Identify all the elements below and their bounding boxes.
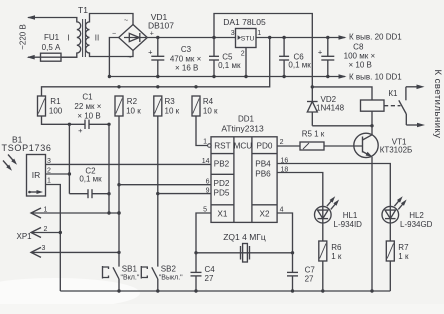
node DA1 out junctions [268, 36, 271, 39]
connector XP1 contact 1 [31, 208, 41, 218]
svg-text:× 10 В: × 10 В [349, 61, 372, 70]
svg-text:I: I [67, 34, 69, 43]
node C1 junctions [68, 123, 71, 126]
wire B1 pin2 stub [46, 173, 70, 175]
IR receiver B1 [27, 155, 46, 197]
relay contact K1.1 [405, 87, 407, 101]
transformer T1 secondary winding II [86, 14, 133, 57]
svg-text:9: 9 [206, 188, 210, 195]
node VD2 top junction [311, 85, 314, 88]
svg-text:100: 100 [49, 107, 63, 116]
svg-text:100 мк ×: 100 мк × [344, 52, 376, 61]
svg-text:PB6: PB6 [255, 170, 271, 179]
wire relay supply feed [214, 14, 312, 87]
svg-text:27: 27 [205, 274, 214, 283]
wire X2 pin4 to crystal [277, 213, 292, 253]
svg-text:2: 2 [280, 139, 284, 146]
fuse FU1 [28, 56, 41, 58]
resistor R5 [300, 142, 324, 150]
wire to lamp lower [406, 124, 418, 126]
node bottom rail junctions [117, 289, 120, 292]
svg-text:27: 27 [305, 275, 314, 284]
wire PD0 to R5 [277, 145, 300, 147]
svg-text:~220 В: ~220 В [19, 24, 28, 50]
wire XP1-3 to SB1 node [31, 251, 119, 253]
wire bridge minus to ground rail [109, 38, 119, 77]
svg-text:0,1 мк: 0,1 мк [288, 60, 311, 69]
svg-text:C1: C1 [82, 93, 93, 102]
wire C1-C2 common column [108, 124, 110, 213]
diode VD2 [311, 87, 313, 102]
svg-text:PB4: PB4 [255, 159, 271, 168]
svg-text:PD5: PD5 [214, 188, 230, 197]
capacitor C7 [292, 253, 294, 273]
svg-text:SB1: SB1 [122, 264, 138, 273]
svg-text:К выв. 20 DD1: К выв. 20 DD1 [349, 33, 402, 42]
wire +5V distribution rail [42, 38, 270, 97]
wire X1 pin5 to crystal [196, 213, 211, 253]
svg-text:10 к: 10 к [203, 107, 218, 116]
transformer T1 core [82, 19, 84, 57]
capacitor C3 [157, 38, 159, 57]
node C2 right junction [107, 192, 110, 195]
node rail B junctions [117, 85, 120, 88]
wire PB6 pin18 to HL1 [277, 173, 323, 207]
wire B1 pin3 to DD1 pin14 [46, 163, 212, 165]
bridge rectifier VD1 [119, 25, 148, 51]
svg-text:C8: C8 [353, 43, 364, 52]
wire VT1 emitter to ground [371, 157, 373, 291]
svg-text:2: 2 [241, 51, 245, 58]
svg-text:R6: R6 [331, 243, 342, 252]
wire R5 to base [324, 145, 363, 147]
transistor VT1 [354, 133, 378, 157]
svg-text:DA1 78L05: DA1 78L05 [223, 17, 266, 27]
voltage regulator DA1 78L05 [236, 29, 257, 48]
capacitor C2 [69, 193, 88, 195]
wire R1 to C1 [42, 116, 86, 124]
svg-text:XP1: XP1 [17, 232, 33, 241]
wire R4 to RST [196, 116, 208, 146]
svg-text:× 16 В: × 16 В [175, 63, 198, 72]
wire R2 column to SB1 [118, 116, 120, 267]
resistor R6 [319, 241, 327, 261]
svg-text:К1: К1 [388, 89, 398, 98]
svg-text:PB2: PB2 [214, 159, 230, 168]
svg-text:PD0: PD0 [257, 142, 273, 151]
svg-text:X2: X2 [259, 210, 269, 219]
relay contact K1.1 dashed link [384, 105, 401, 107]
resistor R7 [386, 241, 394, 261]
pushbutton SB1 [103, 266, 109, 279]
wire PD2 pin6 [119, 184, 211, 186]
svg-text:1N4148: 1N4148 [316, 104, 345, 113]
svg-text:C4: C4 [205, 265, 216, 274]
capacitor C8 [327, 38, 329, 57]
svg-text:DD1: DD1 [238, 115, 255, 124]
svg-text:~: ~ [124, 18, 128, 25]
wire R7 to ground [389, 261, 391, 291]
svg-text:1 к: 1 к [331, 252, 342, 261]
svg-text:1: 1 [203, 139, 207, 146]
svg-text:3: 3 [42, 245, 46, 252]
svg-text:R7: R7 [398, 243, 409, 252]
svg-text:MCU: MCU [234, 142, 253, 151]
svg-text:10 к: 10 к [165, 107, 180, 116]
svg-text:SB2: SB2 [161, 264, 177, 273]
wire bottom ground rail [60, 290, 390, 292]
svg-text:HL2: HL2 [409, 211, 424, 220]
svg-text:IR: IR [32, 170, 41, 180]
capacitor C1 [84, 120, 86, 129]
svg-text:II: II [95, 34, 99, 43]
svg-text:RST: RST [214, 142, 230, 151]
svg-text:"Вкл.": "Вкл." [121, 274, 140, 281]
LED HL2 [382, 206, 399, 223]
svg-text:−: − [112, 30, 116, 37]
resistor R3 [154, 96, 162, 116]
IR input arrows [8, 155, 15, 163]
node B1 pin2 junction [68, 172, 71, 175]
wire rectified plus rail [147, 37, 236, 39]
svg-text:КТ3102Б: КТ3102Б [380, 146, 413, 155]
svg-text:T1: T1 [78, 5, 88, 15]
wire PB4 pin16 to HL2 [277, 164, 390, 207]
node XP1-1 junctions [107, 211, 110, 214]
svg-text:TSOP1736: TSOP1736 [2, 143, 52, 153]
wire R3 column to SB2 [157, 116, 159, 267]
wire to lamp upper [406, 86, 418, 88]
wire B1 Vs column [68, 124, 70, 193]
svg-text:STU: STU [241, 36, 255, 43]
resistor R4 [192, 96, 200, 116]
svg-text:3: 3 [231, 30, 235, 37]
svg-text:ATtiny2313: ATtiny2313 [221, 124, 264, 134]
svg-text:DB107: DB107 [148, 21, 174, 31]
svg-text:0,1 мк: 0,1 мк [79, 175, 102, 184]
wire K1 bottom link [312, 125, 372, 127]
wire VD2/K1 top link [312, 87, 372, 100]
node junction C3 top [156, 36, 159, 39]
svg-text:~: ~ [127, 55, 131, 62]
wire ground rail [109, 76, 345, 78]
wire VT1 collector [371, 126, 373, 135]
svg-text:HL1: HL1 [343, 211, 358, 220]
svg-text:PD2: PD2 [214, 179, 230, 188]
wire DA1 pin2 to ground [245, 48, 247, 77]
svg-text:L-934ID: L-934ID [334, 220, 363, 229]
resistor R2 [115, 96, 123, 116]
svg-text:22 мк ×: 22 мк × [74, 102, 101, 111]
node junction C5/relay feed [212, 36, 215, 39]
wire XP1-1 to R2/SB1 node [31, 212, 119, 214]
svg-text:C3: C3 [181, 45, 192, 54]
svg-text:0,5 А: 0,5 А [42, 43, 61, 52]
resistor R1 [38, 96, 46, 116]
svg-text:+: + [150, 31, 154, 38]
svg-text:0,1 мк: 0,1 мк [218, 61, 241, 70]
wire XP1-2 stub [31, 232, 60, 234]
svg-text:+: + [148, 47, 153, 56]
pushbutton SB2 [141, 266, 147, 279]
svg-text:ZQ1 4 МГц: ZQ1 4 МГц [223, 232, 266, 242]
wire PD5 pin9 [158, 193, 211, 195]
connector XP1 contact 3 [31, 247, 41, 257]
node ground rail junctions [108, 75, 111, 78]
relay coil K1 [361, 100, 385, 111]
svg-text:R1: R1 [50, 97, 61, 106]
svg-text:К светильнику: К светильнику [432, 70, 443, 139]
capacitor C6 [283, 38, 285, 57]
wire R6 to ground [322, 261, 324, 291]
connector XP1 contact 2 [31, 228, 41, 238]
node R2 column junctions [117, 183, 120, 186]
wire crystal net [196, 252, 293, 254]
svg-text:L-934GD: L-934GD [400, 220, 433, 229]
svg-text:10 к: 10 к [126, 107, 141, 116]
svg-text:"Выкл.": "Выкл." [159, 274, 183, 281]
svg-text:C7: C7 [305, 266, 316, 275]
wire DA1 output +5V rail [256, 37, 345, 39]
MCU DD1 ATtiny2313 box [211, 137, 277, 223]
svg-text:R2: R2 [127, 97, 138, 106]
svg-text:R4: R4 [203, 97, 214, 106]
svg-text:К выв. 10 DD1: К выв. 10 DD1 [349, 73, 402, 82]
svg-text:× 10 В: × 10 В [77, 111, 100, 120]
transformer T1 primary winding I [61, 18, 81, 58]
svg-text:470 мк ×: 470 мк × [170, 54, 202, 63]
svg-text:+: + [318, 47, 323, 56]
wire B1 pin1 to ground [46, 185, 61, 292]
svg-text:14: 14 [202, 158, 210, 165]
svg-text:FU1: FU1 [44, 33, 60, 42]
node R3 wire9 junction [156, 192, 159, 195]
svg-text:1 к: 1 к [398, 252, 409, 261]
svg-text:R3: R3 [165, 97, 176, 106]
capacitor C4 [195, 253, 197, 273]
svg-text:6: 6 [206, 179, 210, 186]
wire HL1 to R6 [322, 223, 324, 241]
svg-text:+: + [78, 126, 83, 135]
LED HL1 [315, 206, 332, 223]
wire HL2 to R7 [389, 223, 391, 241]
svg-text:R5 1 к: R5 1 к [302, 129, 325, 138]
svg-text:1: 1 [47, 178, 51, 185]
svg-text:1: 1 [257, 30, 261, 37]
capacitor C5 [213, 38, 215, 57]
crystal ZQ1 [240, 246, 242, 260]
net ~220V input, upper wire [28, 17, 78, 19]
svg-text:X1: X1 [217, 210, 227, 219]
